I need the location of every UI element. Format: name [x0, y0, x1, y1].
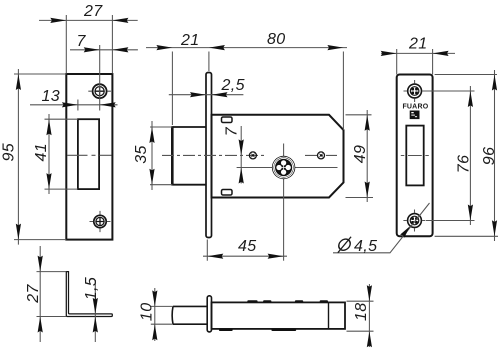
dimension 76 (screw spacing): [424, 86, 475, 225]
case tabs on bottom edge: [219, 329, 296, 331]
svg-text:21: 21: [180, 32, 200, 49]
dimension 45 (backset): [203, 238, 287, 261]
dimension 49 (body height): [346, 110, 374, 202]
FUARO brand text: [402, 103, 428, 110]
svg-text:2,5: 2,5: [221, 77, 245, 94]
faceplate bar (top view): [207, 296, 211, 332]
dimension 41 (cutout height): [33, 114, 78, 194]
svg-text:4,5: 4,5: [354, 238, 377, 255]
dimension 27 (strike plate width): [39, 3, 138, 74]
dimension 21 (bolt throw) and 80 (body length): [146, 31, 347, 130]
svg-text:FUARO: FUARO: [402, 103, 428, 110]
dimension 1,5 (L-profile thickness): [83, 277, 100, 342]
faceplate bottom screw: [403, 210, 425, 232]
dimension 13 (cutout to screw center): [30, 88, 118, 111]
faceplate outline (front view, right): [397, 75, 433, 237]
lock faceplate bar (side view, middle): [206, 73, 212, 238]
dimension 35 (bolt height): [133, 121, 172, 190]
faceplate top screw: [404, 80, 426, 102]
strike plate latch cutout: [78, 119, 99, 189]
bolt centerline (dash-dot through rivets): [162, 154, 337, 156]
dimension 95 (strike plate height): [1, 69, 67, 245]
svg-text:49: 49: [352, 145, 369, 164]
lock body (top view): [212, 302, 346, 329]
svg-text:27: 27: [25, 284, 42, 304]
svg-text:35: 35: [133, 145, 150, 164]
strike plate top screw hole: [88, 84, 111, 98]
rivet left: [249, 152, 256, 159]
dimension 18 (body thickness): [347, 284, 374, 347]
diameter 4,5 leader and label: [333, 203, 430, 255]
svg-text:18: 18: [353, 302, 370, 321]
svg-text:10: 10: [139, 302, 156, 321]
strike plate horizontal centerline: [67, 154, 112, 156]
FUARO logo mark: [410, 111, 420, 120]
strike plate outline (front view, top-left): [66, 74, 112, 240]
cylinder vertical centerline: [283, 144, 285, 261]
deadbolt (top view, bottom-middle): [172, 306, 207, 324]
svg-text:7: 7: [77, 33, 87, 50]
lock body outline: [212, 115, 344, 198]
strike plate bottom screw hole: [90, 211, 111, 232]
dimension 7 (screw center offset): [70, 33, 138, 111]
dimension 27 (L-profile height): [25, 246, 66, 342]
faceplate tab top: [222, 117, 233, 123]
faceplate cutout centerline: [401, 155, 429, 157]
case tabs on top edge: [247, 300, 328, 302]
svg-text:96: 96: [481, 147, 498, 166]
svg-text:21: 21: [408, 36, 428, 53]
svg-text:76: 76: [456, 155, 473, 174]
cylinder horizontal centerline: [237, 167, 338, 169]
body end cap line: [328, 302, 330, 329]
svg-text:80: 80: [267, 31, 286, 48]
svg-text:27: 27: [83, 3, 103, 20]
deadbolt (side view): [172, 126, 206, 185]
faceplate bolt cutout: [406, 126, 423, 186]
dimension 96 (faceplate height): [435, 70, 499, 241]
svg-text:45: 45: [238, 238, 257, 255]
faceplate tab bottom: [222, 190, 233, 196]
dimension 10 (bolt thickness): [139, 288, 174, 341]
svg-text:41: 41: [33, 143, 50, 162]
svg-text:1,5: 1,5: [83, 277, 100, 300]
cylinder mechanism: [272, 156, 295, 179]
dimension 2,5 (faceplate thickness): [169, 77, 245, 97]
strike box L-profile (bottom-left): [66, 272, 112, 317]
svg-text:7: 7: [224, 126, 241, 136]
rivet right: [318, 152, 325, 159]
svg-text:95: 95: [1, 143, 18, 162]
dimension 21 (faceplate width): [381, 36, 455, 75]
svg-text:13: 13: [42, 88, 61, 105]
dimension 7 (centerline to cylinder center): [224, 126, 244, 184]
